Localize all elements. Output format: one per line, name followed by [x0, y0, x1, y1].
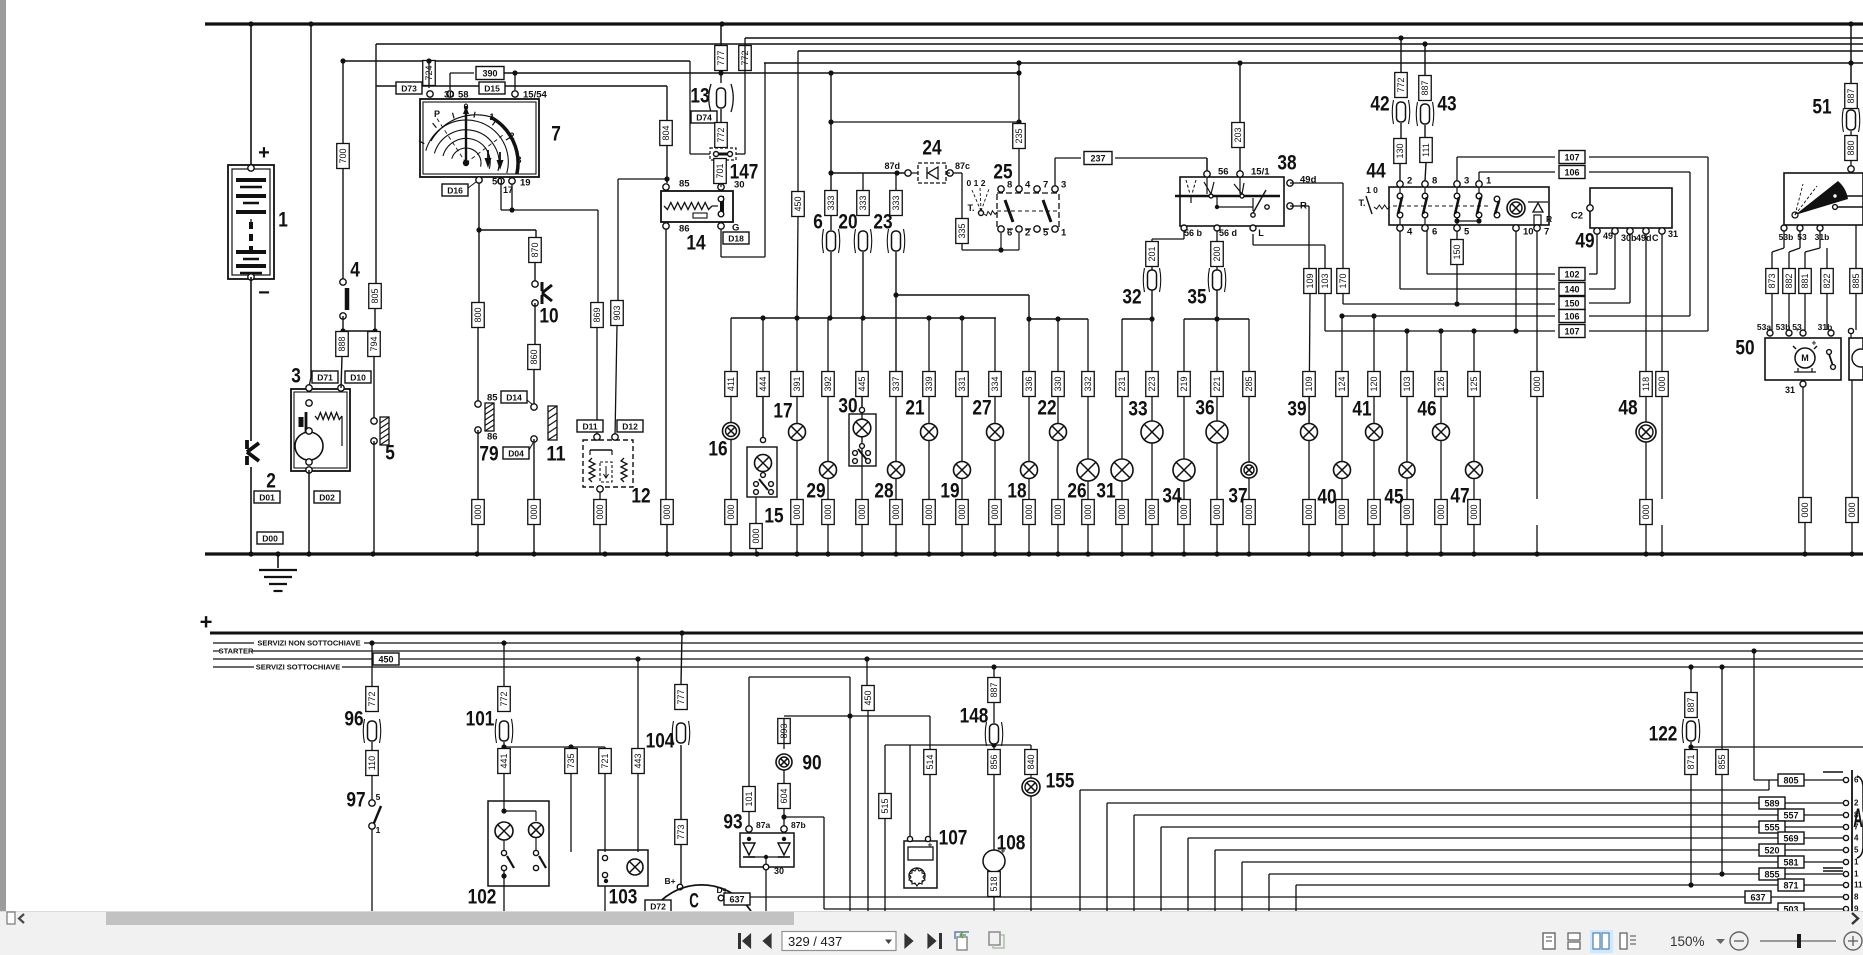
- svg-text:1: 1: [1854, 858, 1859, 867]
- svg-text:31b: 31b: [1818, 322, 1833, 332]
- svg-text:50: 50: [1735, 337, 1754, 360]
- svg-text:79: 79: [479, 443, 498, 466]
- svg-text:51: 51: [1812, 96, 1831, 119]
- svg-text:P: P: [434, 109, 440, 119]
- svg-text:103: 103: [609, 886, 638, 909]
- svg-text:8: 8: [1007, 180, 1012, 191]
- svg-text:42: 42: [1370, 93, 1389, 116]
- svg-text:870: 870: [530, 242, 540, 257]
- svg-text:1: 1: [489, 112, 494, 122]
- svg-text:104: 104: [646, 730, 675, 753]
- svg-text:102: 102: [1564, 270, 1579, 280]
- svg-text:804: 804: [661, 125, 671, 140]
- svg-text:604: 604: [779, 788, 789, 803]
- svg-text:772: 772: [716, 127, 726, 142]
- svg-text:5: 5: [385, 442, 395, 465]
- svg-text:86: 86: [487, 432, 498, 443]
- svg-text:2: 2: [266, 470, 276, 493]
- svg-text:1: 1: [1854, 870, 1859, 879]
- svg-text:333: 333: [826, 195, 836, 210]
- svg-text:97: 97: [346, 789, 365, 812]
- svg-text:333: 333: [858, 195, 868, 210]
- svg-text:11: 11: [546, 443, 565, 466]
- svg-text:4: 4: [1025, 180, 1031, 191]
- svg-text:58: 58: [458, 90, 469, 101]
- svg-text:000: 000: [473, 504, 483, 519]
- svg-text:1: 1: [278, 209, 288, 232]
- svg-text:−: −: [258, 282, 270, 304]
- svg-text:000: 000: [1436, 504, 1446, 519]
- svg-text:1: 1: [1061, 228, 1067, 239]
- svg-text:16: 16: [708, 438, 727, 461]
- svg-text:235: 235: [1014, 128, 1024, 143]
- svg-text:514: 514: [925, 754, 935, 769]
- svg-text:C: C: [689, 890, 699, 913]
- svg-text:777: 777: [716, 50, 726, 65]
- svg-text:4: 4: [1407, 227, 1413, 238]
- svg-text:000: 000: [792, 504, 802, 519]
- svg-text:103: 103: [1402, 376, 1412, 391]
- svg-text:125: 125: [1469, 376, 1479, 391]
- svg-text:000: 000: [990, 504, 1000, 519]
- svg-text:637: 637: [729, 895, 744, 905]
- svg-text:5: 5: [376, 792, 381, 802]
- svg-text:000: 000: [1212, 504, 1222, 519]
- svg-text:000: 000: [726, 504, 736, 519]
- svg-text:107: 107: [939, 827, 968, 850]
- svg-text:2: 2: [1025, 228, 1030, 239]
- svg-text:330: 330: [1053, 376, 1063, 391]
- svg-text:000: 000: [957, 504, 967, 519]
- svg-text:93: 93: [723, 811, 742, 834]
- svg-text:000: 000: [751, 528, 761, 543]
- svg-text:20: 20: [838, 211, 857, 234]
- svg-text:201: 201: [1147, 246, 1157, 261]
- svg-text:000: 000: [662, 504, 672, 519]
- svg-text:000: 000: [1337, 504, 1347, 519]
- svg-text:47: 47: [1450, 485, 1469, 508]
- svg-text:391: 391: [792, 376, 802, 391]
- svg-text:8: 8: [1854, 893, 1859, 902]
- svg-text:96: 96: [344, 708, 363, 731]
- svg-text:D16: D16: [447, 186, 463, 196]
- svg-text:87d: 87d: [884, 161, 900, 171]
- svg-text:000: 000: [1847, 502, 1857, 517]
- svg-text:772: 772: [1396, 77, 1406, 92]
- svg-text:90: 90: [802, 752, 821, 775]
- svg-text:+: +: [258, 142, 270, 164]
- svg-text:000: 000: [891, 504, 901, 519]
- svg-text:36: 36: [1195, 397, 1214, 420]
- svg-text:5: 5: [1464, 227, 1470, 238]
- svg-text:49: 49: [1575, 230, 1594, 253]
- svg-text:000: 000: [924, 504, 934, 519]
- svg-text:000: 000: [1024, 504, 1034, 519]
- svg-text:17: 17: [773, 400, 792, 423]
- svg-text:28: 28: [874, 480, 893, 503]
- svg-text:44: 44: [1366, 160, 1385, 183]
- svg-text:53b: 53b: [1779, 232, 1794, 242]
- svg-text:30: 30: [774, 866, 784, 876]
- svg-text:18: 18: [1007, 480, 1026, 503]
- svg-text:4: 4: [350, 259, 360, 282]
- svg-text:871: 871: [1686, 754, 1696, 769]
- svg-text:124: 124: [1337, 376, 1347, 391]
- svg-text:331: 331: [957, 376, 967, 391]
- svg-text:334: 334: [990, 376, 1000, 391]
- svg-text:103: 103: [1320, 273, 1330, 288]
- svg-text:3: 3: [1464, 176, 1469, 187]
- svg-text:D72: D72: [650, 902, 666, 912]
- svg-text:701: 701: [715, 163, 725, 178]
- svg-text:+: +: [928, 841, 933, 850]
- svg-text:000: 000: [1641, 504, 1651, 519]
- svg-text:D15: D15: [484, 84, 500, 94]
- svg-text:557: 557: [1783, 811, 1798, 821]
- svg-text:31: 31: [1668, 229, 1678, 239]
- svg-text:41: 41: [1352, 398, 1371, 421]
- svg-text:110: 110: [367, 756, 377, 770]
- svg-text:43: 43: [1437, 93, 1456, 116]
- svg-text:569: 569: [1783, 834, 1798, 844]
- svg-text:887: 887: [989, 682, 999, 697]
- svg-text:000: 000: [1117, 504, 1127, 519]
- svg-text:148: 148: [960, 705, 989, 728]
- svg-text:329 / 437: 329 / 437: [788, 934, 842, 949]
- svg-text:26: 26: [1067, 480, 1086, 503]
- svg-text:000: 000: [1147, 504, 1157, 519]
- svg-text:D74: D74: [696, 113, 712, 123]
- svg-text:000: 000: [1369, 504, 1379, 519]
- svg-text:332: 332: [1083, 376, 1093, 391]
- svg-text:881: 881: [1800, 273, 1810, 288]
- svg-text:14: 14: [686, 232, 705, 255]
- svg-text:335: 335: [957, 223, 967, 238]
- svg-text:337: 337: [891, 376, 901, 391]
- svg-text:887: 887: [1846, 88, 1856, 103]
- svg-text:53b: 53b: [1776, 322, 1791, 332]
- svg-text:822: 822: [1822, 273, 1832, 288]
- svg-text:109: 109: [1305, 273, 1315, 288]
- svg-text:794: 794: [369, 336, 379, 351]
- svg-text:150%: 150%: [1670, 934, 1705, 949]
- svg-text:855: 855: [1764, 870, 1779, 880]
- svg-text:800: 800: [473, 307, 483, 322]
- svg-text:8: 8: [1432, 176, 1437, 187]
- svg-text:155: 155: [1046, 770, 1075, 793]
- svg-text:SERVIZI SOTTOCHIAVE: SERVIZI SOTTOCHIAVE: [256, 663, 341, 672]
- svg-text:445: 445: [857, 376, 867, 391]
- svg-text:203: 203: [1233, 127, 1243, 142]
- svg-text:000: 000: [1532, 376, 1542, 391]
- svg-text:56 d: 56 d: [1219, 228, 1237, 238]
- svg-text:12: 12: [631, 485, 650, 508]
- svg-text:10: 10: [1523, 227, 1534, 238]
- svg-text:22: 22: [1037, 397, 1056, 420]
- svg-text:C: C: [1652, 233, 1659, 243]
- svg-text:B+: B+: [664, 876, 675, 886]
- svg-text:35: 35: [1187, 286, 1206, 309]
- svg-text:45: 45: [1384, 486, 1403, 509]
- svg-text:589: 589: [1764, 799, 1779, 809]
- svg-text:285: 285: [1244, 376, 1254, 391]
- svg-text:888: 888: [337, 336, 347, 351]
- svg-text:87a: 87a: [756, 820, 770, 830]
- svg-text:411: 411: [726, 377, 736, 391]
- svg-text:106: 106: [1564, 168, 1579, 178]
- svg-text:000: 000: [1800, 502, 1810, 517]
- svg-text:7: 7: [551, 123, 561, 146]
- svg-text:170: 170: [1338, 273, 1348, 288]
- svg-text:85: 85: [487, 393, 498, 404]
- svg-text:87c: 87c: [955, 161, 970, 171]
- svg-text:122: 122: [1649, 723, 1678, 746]
- svg-text:15/1: 15/1: [1251, 167, 1270, 178]
- svg-text:869: 869: [592, 307, 602, 322]
- svg-text:39: 39: [1287, 398, 1306, 421]
- svg-text:885: 885: [1851, 273, 1861, 288]
- svg-text:34: 34: [1162, 485, 1181, 508]
- svg-text:46: 46: [1417, 398, 1436, 421]
- svg-text:444: 444: [758, 376, 768, 391]
- svg-text:000: 000: [857, 504, 867, 519]
- svg-text:53: 53: [1797, 232, 1807, 242]
- svg-text:805: 805: [370, 288, 380, 303]
- svg-text:518: 518: [989, 876, 999, 891]
- svg-text:2: 2: [1407, 176, 1412, 187]
- svg-text:32: 32: [1122, 286, 1141, 309]
- svg-text:130: 130: [1395, 143, 1405, 158]
- svg-text:53a: 53a: [1757, 322, 1771, 332]
- svg-text:6: 6: [1432, 227, 1437, 238]
- svg-text:21: 21: [905, 397, 924, 420]
- svg-text:855: 855: [1717, 754, 1727, 769]
- svg-text:1: 1: [376, 825, 381, 835]
- svg-text:C2: C2: [1571, 211, 1583, 222]
- svg-text:+: +: [1812, 339, 1817, 348]
- svg-text:515: 515: [880, 798, 890, 813]
- svg-text:882: 882: [1784, 273, 1794, 288]
- svg-text:5: 5: [1854, 846, 1859, 855]
- svg-text:721: 721: [600, 753, 610, 768]
- svg-text:10: 10: [539, 305, 558, 328]
- svg-text:735: 735: [566, 753, 576, 768]
- svg-text:150: 150: [1452, 244, 1462, 259]
- svg-text:27: 27: [972, 397, 991, 420]
- svg-text:000: 000: [595, 504, 605, 519]
- svg-text:237: 237: [1090, 154, 1105, 164]
- svg-text:111: 111: [1421, 143, 1431, 157]
- svg-text:M: M: [1801, 353, 1809, 363]
- svg-text:108: 108: [997, 832, 1026, 855]
- svg-text:000: 000: [1083, 504, 1093, 519]
- svg-text:D10: D10: [350, 373, 366, 383]
- svg-text:D18: D18: [728, 234, 744, 244]
- svg-text:450: 450: [863, 690, 873, 705]
- svg-text:873: 873: [1767, 273, 1777, 288]
- svg-text:856: 856: [989, 754, 999, 769]
- svg-text:871: 871: [1783, 881, 1798, 891]
- svg-text:805: 805: [1783, 776, 1798, 786]
- svg-text:700: 700: [338, 148, 348, 163]
- svg-text:581: 581: [1783, 858, 1798, 868]
- svg-text:85: 85: [679, 179, 690, 190]
- svg-text:7: 7: [1043, 180, 1048, 191]
- svg-text:772: 772: [367, 691, 377, 706]
- svg-text:D12: D12: [622, 422, 638, 432]
- svg-text:,: ,: [1796, 322, 1798, 332]
- svg-text:200: 200: [1212, 246, 1222, 261]
- svg-text:887: 887: [1420, 80, 1430, 95]
- svg-text:637: 637: [1750, 893, 1765, 903]
- svg-text:333: 333: [891, 195, 901, 210]
- svg-text:T.: T.: [1358, 198, 1365, 208]
- svg-text:450: 450: [793, 196, 803, 211]
- svg-text:D02: D02: [319, 493, 335, 503]
- svg-text:903: 903: [612, 305, 622, 320]
- svg-text:219: 219: [1179, 376, 1189, 391]
- svg-text:118: 118: [1641, 377, 1651, 391]
- svg-text:STARTER: STARTER: [219, 647, 254, 656]
- svg-text:520: 520: [1764, 846, 1779, 856]
- svg-text:30: 30: [444, 90, 455, 101]
- svg-text:6: 6: [813, 211, 823, 234]
- svg-text:000: 000: [1657, 376, 1667, 391]
- svg-text:4: 4: [1854, 834, 1859, 843]
- svg-text:30: 30: [734, 180, 745, 191]
- svg-text:D73: D73: [401, 84, 417, 94]
- svg-text:D71: D71: [317, 373, 333, 383]
- svg-text:392: 392: [823, 376, 833, 391]
- svg-text:231: 231: [1117, 376, 1127, 391]
- svg-text:37: 37: [1228, 485, 1247, 508]
- svg-text:0: 0: [463, 102, 468, 112]
- svg-text:6: 6: [1007, 228, 1012, 239]
- svg-text:0 1 2: 0 1 2: [967, 178, 986, 188]
- svg-text:48: 48: [1618, 397, 1637, 420]
- svg-text:23: 23: [873, 211, 892, 234]
- svg-text:120: 120: [1369, 376, 1379, 391]
- svg-text:555: 555: [1764, 823, 1779, 833]
- svg-text:221: 221: [1212, 376, 1222, 391]
- svg-text:150: 150: [1564, 299, 1579, 309]
- svg-text:000: 000: [529, 504, 539, 519]
- svg-text:38: 38: [1277, 152, 1296, 175]
- svg-text:SERVIZI NON SOTTOCHIAVE: SERVIZI NON SOTTOCHIAVE: [257, 639, 360, 648]
- svg-text:140: 140: [1564, 285, 1579, 295]
- svg-text:56: 56: [1218, 167, 1229, 178]
- svg-text:D04: D04: [508, 449, 524, 459]
- svg-text:223: 223: [1147, 376, 1157, 391]
- svg-text:15: 15: [764, 505, 783, 528]
- svg-text:D01: D01: [259, 493, 275, 503]
- svg-text:390: 390: [482, 69, 497, 79]
- svg-text:D14: D14: [506, 393, 522, 403]
- svg-text:49d: 49d: [1636, 233, 1652, 243]
- svg-text:49d: 49d: [1300, 175, 1317, 186]
- svg-text:2: 2: [509, 131, 514, 141]
- svg-text:3: 3: [516, 155, 521, 165]
- svg-text:339: 339: [924, 376, 934, 391]
- svg-text:101: 101: [466, 708, 495, 731]
- svg-text:31: 31: [1096, 480, 1115, 503]
- svg-text:7: 7: [1544, 227, 1549, 238]
- svg-text:443: 443: [633, 753, 643, 768]
- svg-text:106: 106: [1564, 312, 1579, 322]
- svg-text:126: 126: [1436, 376, 1446, 391]
- svg-text:777: 777: [676, 689, 686, 704]
- svg-text:31b: 31b: [1815, 232, 1830, 242]
- svg-text:107: 107: [1564, 153, 1579, 163]
- svg-text:860: 860: [529, 349, 539, 364]
- svg-text:3: 3: [291, 365, 301, 388]
- svg-text:102: 102: [468, 886, 497, 909]
- svg-text:441: 441: [499, 753, 509, 768]
- svg-text:R: R: [1546, 214, 1552, 224]
- svg-text:A: A: [1853, 803, 1863, 833]
- svg-text:880: 880: [1846, 140, 1856, 155]
- svg-text:109: 109: [1304, 376, 1314, 391]
- svg-text:336: 336: [1024, 376, 1034, 391]
- svg-text:19: 19: [940, 480, 959, 503]
- svg-text:19: 19: [520, 178, 531, 189]
- svg-text:D11: D11: [582, 422, 597, 432]
- svg-text:000: 000: [823, 504, 833, 519]
- svg-text:107: 107: [1564, 327, 1579, 337]
- svg-text:40: 40: [1317, 486, 1336, 509]
- svg-text:840: 840: [1026, 754, 1036, 769]
- svg-text:D00: D00: [262, 534, 278, 544]
- svg-text:1: 1: [1486, 176, 1492, 187]
- svg-text:772: 772: [499, 691, 509, 706]
- svg-text:24: 24: [922, 137, 941, 160]
- svg-text:+: +: [200, 610, 213, 635]
- svg-text:87b: 87b: [791, 820, 806, 830]
- svg-text:3: 3: [1061, 180, 1066, 191]
- svg-text:15/54: 15/54: [523, 90, 547, 101]
- svg-text:13: 13: [690, 85, 709, 108]
- svg-text:000: 000: [1053, 504, 1063, 519]
- svg-text:33: 33: [1128, 398, 1147, 421]
- svg-text:56 b: 56 b: [1184, 228, 1203, 238]
- svg-text:000: 000: [1469, 504, 1479, 519]
- svg-text:T.: T.: [967, 203, 974, 213]
- svg-text:11: 11: [1854, 881, 1863, 890]
- svg-text:101: 101: [744, 791, 754, 806]
- svg-text:450: 450: [378, 655, 393, 665]
- svg-text:773: 773: [676, 824, 686, 839]
- svg-text:000: 000: [1304, 504, 1314, 519]
- svg-text:29: 29: [806, 480, 825, 503]
- svg-text:L: L: [1258, 228, 1264, 238]
- svg-text:1 0: 1 0: [1366, 185, 1378, 195]
- svg-text:5: 5: [1043, 228, 1049, 239]
- svg-text:31: 31: [1785, 385, 1795, 395]
- svg-text:887: 887: [1686, 697, 1696, 712]
